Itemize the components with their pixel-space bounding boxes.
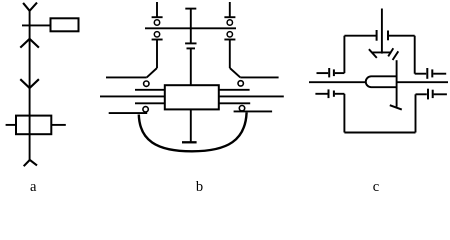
arrow chevron down on shaft a-I	[20, 79, 39, 88]
collar tick upper right	[224, 16, 235, 18]
shaft line L5	[109, 112, 148, 114]
shaft line R5	[234, 110, 273, 112]
wire link to motor block	[22, 24, 50, 26]
frame vertical lower left	[343, 94, 345, 133]
lower left gear bar short	[333, 91, 335, 97]
right bend diagonal	[230, 68, 241, 77]
lower right gear stub inner	[416, 93, 427, 95]
gear block G1 on shaft a-I	[16, 116, 51, 135]
shaft line L2	[135, 89, 165, 91]
frame vertical lower right	[415, 94, 417, 132]
center shaft top cap	[185, 8, 196, 10]
gear bar left of shaft c	[376, 30, 378, 41]
svg-text:b: b	[196, 179, 203, 194]
bearing fork top (figure a shaft I)	[23, 3, 37, 11]
input shaft c top	[381, 9, 383, 54]
bearing fork bottom (figure a)	[24, 160, 37, 166]
shaft line R2	[219, 89, 250, 91]
pulley circle right lower	[239, 106, 244, 111]
right shaft segment down	[229, 40, 231, 69]
pulley circle left upper	[144, 81, 149, 86]
shaft line L3	[100, 95, 165, 97]
lower left gear stub inner	[335, 93, 345, 95]
stub shaft left of G1	[6, 124, 16, 126]
shaft line R4	[219, 102, 250, 104]
left shaft segment down	[156, 40, 158, 69]
shaft line L4	[135, 102, 165, 104]
clutch output vertical shaft	[396, 60, 398, 107]
shaft line R3	[219, 95, 284, 97]
frame top right	[388, 35, 415, 37]
collar tick lower right	[224, 39, 235, 41]
upper left gear bar short	[333, 69, 335, 76]
upper left gear bar tall	[328, 68, 330, 77]
upper left gear stub inner	[335, 72, 345, 74]
clutch cone stroke right 2	[393, 51, 399, 60]
roller circle right top	[227, 20, 232, 25]
belt arc under pulleys	[139, 112, 247, 151]
frame vertical upper left	[343, 36, 345, 73]
pulley circle right upper	[238, 81, 243, 86]
output shaft end cap	[182, 141, 197, 143]
collar tick upper left	[152, 16, 163, 18]
shaft a-I (vertical)	[29, 11, 31, 160]
collar tick lower left	[152, 39, 163, 41]
upper right gear bar short	[431, 69, 433, 77]
upper right gear stub outer	[433, 73, 446, 75]
gearbox housing B	[165, 85, 219, 109]
clutch cross bar	[372, 51, 392, 53]
arrow chevron up on shaft a-I	[20, 39, 39, 48]
roller circle left top	[154, 20, 159, 25]
frame top left	[344, 35, 376, 37]
left bend diagonal	[147, 68, 157, 77]
upper right gear bar tall	[426, 68, 428, 79]
center shaft to gearbox	[190, 48, 192, 85]
frame vertical upper right	[414, 36, 416, 74]
lower left gear bar tall	[328, 89, 330, 98]
top cross shaft b-I	[145, 27, 236, 29]
motor block M1	[51, 18, 79, 31]
end tick diagonal	[390, 105, 402, 109]
coupling flange lower	[187, 47, 196, 49]
lower right gear bar short	[432, 90, 434, 98]
right arm shaft R1	[240, 76, 278, 78]
roller circle right bottom	[227, 32, 232, 37]
upper right gear stub inner	[415, 73, 427, 75]
svg-text:c: c	[373, 179, 379, 194]
svg-text:a: a	[30, 179, 37, 194]
clutch cone stroke right 1	[388, 48, 393, 56]
main shaft c right segment	[397, 81, 448, 83]
roller circle left bottom	[154, 32, 159, 37]
frame bottom	[344, 132, 415, 134]
lower right gear stub outer	[434, 93, 447, 95]
main shaft c left segment	[309, 81, 366, 83]
right input shaft b upper	[229, 2, 231, 17]
stub shaft right of G1	[51, 124, 66, 126]
output shaft below gearbox	[190, 109, 192, 141]
pulley circle left lower	[143, 107, 148, 112]
left input shaft b upper	[156, 2, 158, 17]
lower left gear stub outer	[315, 93, 327, 95]
upper left gear stub outer	[317, 72, 329, 74]
center shaft b upper	[190, 9, 192, 44]
coupling flange upper	[185, 42, 196, 44]
lower right gear bar tall	[427, 89, 429, 100]
left arm shaft L1	[106, 76, 147, 78]
gear bar right of shaft c	[387, 31, 389, 41]
worm bulb on main shaft	[366, 76, 397, 87]
clutch cone stroke left	[369, 49, 377, 58]
